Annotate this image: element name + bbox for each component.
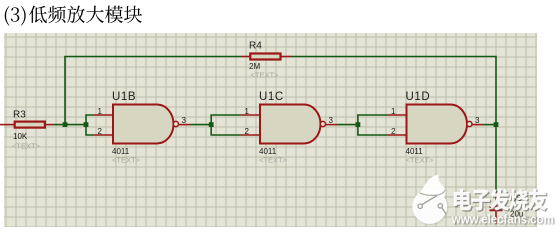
junction node at U1D tee — [356, 122, 361, 127]
wire: R3 to U1B input node — [54, 124, 86, 126]
svg-text:<TEXT>: <TEXT> — [112, 156, 141, 165]
svg-text:1: 1 — [391, 107, 396, 116]
svg-text:2: 2 — [391, 127, 396, 136]
svg-text:2: 2 — [245, 127, 250, 136]
svg-text:<TEXT>: <TEXT> — [251, 70, 280, 79]
resistor R3 — [12, 110, 54, 151]
wire: feedback vertical at x=65 — [64, 57, 66, 125]
junction node at U1C tee — [209, 122, 214, 127]
watermark text 电子发烧友 — [454, 189, 548, 212]
svg-text:1: 1 — [245, 107, 250, 116]
svg-text:R4: R4 — [249, 41, 262, 52]
svg-text:3: 3 — [329, 116, 334, 125]
svg-text:3: 3 — [475, 116, 480, 125]
svg-text:<TEXT>: <TEXT> — [406, 156, 435, 165]
capacitor C6 20u — [490, 193, 545, 225]
wire: top feedback horizontal left of R4 — [64, 56, 241, 58]
svg-text:1: 1 — [98, 107, 103, 116]
NAND gate U1D (4011) — [387, 91, 484, 164]
schematic grid background — [4, 33, 537, 227]
svg-text:R3: R3 — [13, 110, 26, 121]
junction node at R3/feedback — [63, 122, 68, 127]
wire: U1D output to feedback node — [484, 124, 496, 126]
svg-text:10K: 10K — [13, 132, 28, 141]
watermark text www.elecfans.com — [451, 213, 555, 228]
svg-text:U1D: U1D — [406, 91, 431, 103]
svg-text:<TEXT>: <TEXT> — [12, 142, 41, 151]
title text (3)低频放大模块 — [5, 6, 142, 26]
svg-text:U1B: U1B — [112, 91, 136, 103]
junction node at U1B tee — [84, 122, 89, 127]
wire: top feedback horizontal right of R4, down to output node — [292, 57, 496, 125]
wire: U1B output to U1C input — [191, 124, 212, 126]
wire: vertical from output node down to C6 — [495, 125, 497, 193]
NAND gate U1B (4011) — [94, 91, 191, 164]
svg-text:2: 2 — [98, 127, 103, 136]
watermark logo disc — [412, 175, 448, 225]
wire: input stub to R3 — [0, 124, 14, 126]
resistor R4 — [242, 41, 293, 80]
wire: U1B input tee — [86, 115, 94, 135]
svg-text:www.elecfans.com: www.elecfans.com — [451, 213, 554, 227]
svg-text:U1C: U1C — [259, 91, 284, 103]
junction node at U1D output — [494, 122, 499, 127]
wire: U1D input tee — [358, 115, 387, 135]
svg-text:<TEXT>: <TEXT> — [259, 156, 288, 165]
svg-text:3: 3 — [182, 116, 187, 125]
wire: U1C output to U1D input — [338, 124, 358, 126]
NAND gate U1C (4011) — [241, 91, 338, 164]
wire: U1C input tee — [211, 115, 240, 135]
